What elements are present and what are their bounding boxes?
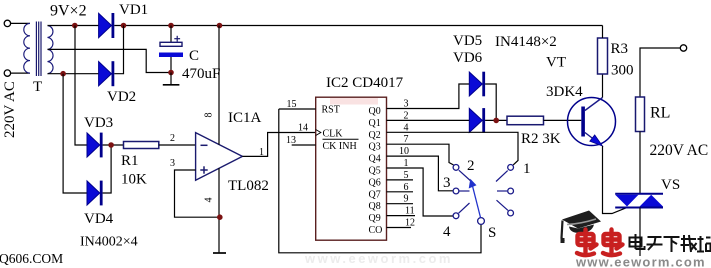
wire cap bottom: [170, 57, 172, 73]
resistor R2: [507, 116, 544, 125]
svg-text:Q6: Q6: [369, 177, 381, 188]
node dot cap bottom: [168, 70, 174, 76]
IC2 CD4017 box: [316, 97, 387, 240]
wire triac down: [639, 208, 641, 257]
svg-text:VD1: VD1: [119, 2, 148, 18]
svg-text:IN4148×2: IN4148×2: [495, 34, 557, 50]
svg-text:Q4: Q4: [369, 154, 381, 165]
svg-text:C: C: [189, 48, 199, 64]
svg-text:7: 7: [404, 134, 409, 145]
svg-text:11: 11: [405, 206, 415, 217]
diode VD3: [87, 133, 100, 157]
wire emitter down to triac gate: [603, 146, 627, 214]
transformer T secondary winding: [48, 26, 54, 74]
wire top rail: [114, 25, 602, 27]
wire RL to triac: [639, 132, 641, 194]
ground (op-amp): [213, 252, 226, 254]
svg-text:3: 3: [404, 99, 409, 110]
svg-text:220V AC: 220V AC: [2, 81, 18, 138]
wire VD4 cathode up: [103, 145, 112, 193]
svg-text:RL: RL: [650, 105, 670, 122]
svg-text:3DK4: 3DK4: [546, 84, 583, 100]
wire: [11, 22, 30, 24]
watermark char chong1: [577, 230, 597, 256]
diode VD4: [87, 181, 100, 205]
svg-text:VD2: VD2: [107, 89, 136, 105]
switch S contact 3 feed from Q4: [413, 156, 453, 191]
svg-text:CK INH: CK INH: [323, 141, 357, 152]
ground (cap): [170, 73, 172, 85]
wire VD6 cathode to R2: [485, 119, 507, 121]
svg-text:IC2 CD4017: IC2 CD4017: [326, 75, 404, 91]
wire VD4 feed from bottom tap: [63, 74, 87, 193]
wire Q1 to VD6: [413, 119, 469, 121]
svg-text:Q7: Q7: [369, 189, 381, 200]
node dot pin4/pin3: [217, 214, 223, 220]
svg-text:www.eeworm.com: www.eeworm.com: [304, 251, 453, 266]
diode VD1: [99, 13, 112, 37]
pin Q3 stub (7): [387, 143, 414, 145]
svg-text:Q606.COM: Q606.COM: [0, 251, 63, 266]
capacitor C plus sign: [174, 38, 180, 40]
switch S contact 3: [453, 188, 459, 194]
resistor R3: [598, 38, 608, 74]
svg-text:R3: R3: [611, 41, 629, 57]
svg-text:8: 8: [204, 113, 215, 118]
pin 13 wire stub: [292, 144, 316, 146]
diode VD2: [99, 62, 112, 86]
faint pink watermark remnant: [330, 98, 378, 105]
svg-text:1: 1: [523, 161, 531, 177]
switch S contact 4: [453, 213, 459, 219]
wire op-amp output to CLK: [242, 133, 315, 157]
pin Q0 stub (3): [387, 108, 414, 110]
svg-text:S: S: [488, 225, 496, 241]
pin 8 wire: [218, 26, 220, 145]
svg-text:CLK: CLK: [323, 129, 344, 140]
diode VD5: [469, 72, 482, 96]
watermark graduation cap: [562, 211, 601, 229]
wire terminal to RL: [640, 48, 680, 97]
pin Q9 stub (11): [387, 215, 416, 217]
svg-text:VT: VT: [546, 55, 566, 71]
svg-text:14: 14: [298, 123, 308, 134]
wire: [11, 72, 30, 74]
wire collector up: [602, 74, 604, 98]
pin Q5 stub (1): [387, 167, 414, 169]
pin Q1 stub (2): [387, 119, 414, 121]
node dot cap C top: [168, 23, 174, 29]
svg-text:3: 3: [170, 158, 175, 169]
capacitor C top plate: [160, 42, 182, 46]
svg-text:Q9: Q9: [369, 213, 381, 224]
pin 15 wire RST: [279, 108, 316, 110]
svg-text:R1: R1: [121, 153, 139, 169]
svg-text:10K: 10K: [121, 172, 147, 188]
AC input terminal bottom: [4, 70, 10, 76]
svg-text:2: 2: [467, 158, 475, 174]
wire: [103, 144, 124, 146]
switch S contact 2: [453, 165, 459, 171]
svg-text:R2 3K: R2 3K: [521, 131, 561, 147]
svg-text:RST: RST: [322, 105, 340, 116]
svg-text:4: 4: [404, 122, 409, 133]
wire secondary top tap: [48, 25, 99, 27]
svg-text:3: 3: [443, 175, 451, 191]
AC terminal right: [680, 45, 686, 51]
svg-text:Q8: Q8: [369, 201, 381, 212]
node dot VD2 join: [121, 23, 127, 29]
svg-text:IC1A: IC1A: [228, 110, 262, 126]
wire RST down to switch rail: [279, 109, 481, 253]
svg-text:Q5: Q5: [369, 166, 381, 177]
resistor R1: [124, 142, 159, 149]
svg-text:VS: VS: [661, 177, 680, 193]
pin 4 wire: [218, 168, 220, 253]
svg-text:220V AC: 220V AC: [650, 142, 709, 159]
svg-text:13: 13: [286, 135, 296, 146]
svg-text:15: 15: [287, 99, 297, 110]
switch S contact 4 feed from Q5: [413, 168, 453, 216]
capacitor C wire: [170, 26, 172, 43]
triac VS: [615, 193, 663, 195]
svg-text:TL082: TL082: [228, 178, 269, 194]
clock wedge: [316, 130, 321, 136]
svg-text:Q0: Q0: [369, 106, 381, 117]
switch S contact 1: [508, 165, 514, 171]
svg-text:9V×2: 9V×2: [50, 3, 87, 20]
svg-text:VD6: VD6: [453, 50, 483, 66]
svg-text:2: 2: [404, 110, 409, 121]
wire VD5 cathode down: [485, 84, 496, 120]
pin Q6 stub (5): [387, 179, 414, 181]
resistor RL: [636, 97, 645, 132]
svg-text:5: 5: [404, 170, 409, 181]
node dot VD3/VD4 join: [108, 142, 114, 148]
pin Q8 stub (9): [387, 203, 414, 205]
wire R2 to base: [544, 119, 582, 121]
svg-text:Q1: Q1: [369, 118, 381, 129]
svg-text:Q3: Q3: [369, 142, 381, 153]
pin Q7 stub (6): [387, 191, 414, 193]
wire pin3 return: [175, 170, 220, 217]
svg-text:10: 10: [399, 146, 409, 157]
svg-text:IN4002×4: IN4002×4: [80, 235, 138, 250]
node dot bottom tap: [60, 71, 66, 77]
pin Q4 stub (10): [387, 155, 414, 157]
switch S contact lower right (unused): [508, 210, 514, 216]
svg-text:470uF: 470uF: [182, 66, 220, 82]
wire secondary center tap: [48, 49, 172, 72]
switch S contact 2 feed from Q3: [413, 144, 454, 165]
chip overline CKINH: [323, 138, 359, 140]
svg-text:4: 4: [204, 198, 215, 203]
switch S contact 1 feed from Q2: [413, 132, 518, 165]
watermark text dian zi xia zai zhan: [630, 234, 711, 252]
wire Q0 to VD5: [413, 84, 469, 109]
wire R3 top to rail: [602, 26, 604, 39]
svg-text:CO: CO: [369, 225, 383, 236]
pin CO stub (12): [387, 227, 412, 229]
svg-text:9: 9: [404, 194, 409, 205]
node dot top tap: [72, 23, 78, 29]
watermark char chong2: [603, 230, 623, 256]
svg-text:300: 300: [611, 63, 634, 79]
op-amp U1 IC1A: [196, 133, 243, 181]
diode VD6: [469, 108, 482, 132]
svg-text:VD3: VD3: [84, 115, 113, 131]
svg-text:www.eeworm.com: www.eeworm.com: [575, 255, 706, 268]
node dot VD5/VD6: [493, 118, 499, 124]
wire VD2 cathode up to rail: [114, 26, 123, 74]
AC input terminal top: [4, 20, 10, 26]
svg-text:VD5: VD5: [453, 33, 482, 49]
wire VD3 feed from top rail: [75, 26, 87, 146]
wire secondary bottom tap: [48, 73, 99, 75]
transformer T core: [35, 22, 37, 77]
capacitor C bottom plate: [159, 53, 183, 58]
svg-text:T: T: [33, 79, 42, 95]
node dot op-amp V+: [217, 23, 223, 29]
svg-text:6: 6: [404, 182, 409, 193]
transformer T primary winding: [24, 23, 30, 73]
svg-text:12: 12: [405, 218, 415, 229]
transistor Q VT: [568, 98, 616, 146]
svg-text:VD4: VD4: [84, 211, 114, 227]
svg-text:1: 1: [259, 147, 264, 158]
switch S wiper arrow: [473, 186, 481, 218]
switch S contact middle right (unused): [508, 188, 514, 194]
svg-text:2: 2: [170, 133, 175, 144]
wire R1 to op-amp: [159, 144, 196, 146]
svg-text:1: 1: [404, 158, 409, 169]
svg-text:4: 4: [443, 224, 451, 240]
pin Q2 stub (4): [387, 131, 414, 133]
switch S pole: [478, 218, 485, 225]
svg-text:Q2: Q2: [369, 130, 381, 141]
